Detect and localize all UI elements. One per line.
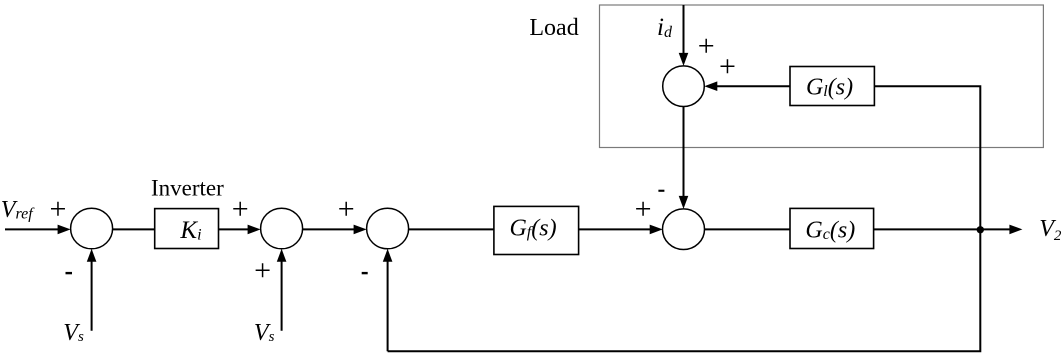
svg-text:+: + [232,193,249,226]
summing junction S1 [71,208,113,249]
wire S5 output down to S4 [679,107,689,209]
summing junction S3 [367,208,409,249]
minus sign at S3 bottom input [362,272,368,274]
Load box (system boundary) [600,5,1044,148]
summing junction S4 [663,209,705,250]
wire/arrow Ki output into S2 [219,225,261,235]
wire feedback from node V2 up into Gl(s) [874,86,980,229]
wire/arrow Gl(s) output into S5 [704,81,790,91]
svg-text:Gl(s): Gl(s) [806,75,853,101]
block Gc(s) [790,208,874,248]
wire/arrow Vs into S2 [277,249,287,331]
block Gf(s) [494,206,579,254]
summing junction S5 (load) [663,66,705,107]
svg-text:Inverter: Inverter [151,175,224,200]
wire feedback from node V2 down to bottom feedback path [388,229,981,351]
wire S3 to Gf [409,228,494,230]
wire/arrow Gf output into S4 [579,225,663,235]
svg-text:Gc(s): Gc(s) [805,218,855,244]
wire/arrow S2 output into S3 [303,225,367,235]
svg-text:+: + [635,193,652,226]
summing junction S2 [261,208,303,249]
wire id input into load summing junction S5 [679,5,689,66]
svg-text:+: + [719,50,736,83]
wire/arrow feedback into S3 from below [383,249,393,351]
wire/arrow Vref into S1 [5,225,71,235]
svg-text:+: + [50,193,67,226]
wire Gc output to node and output arrow [874,225,1023,235]
wire S4 to Gc [704,228,790,230]
minus sign at S4 top input [658,190,664,192]
svg-text:+: + [338,193,355,226]
block Ki [155,209,219,249]
svg-text:+: + [698,30,715,63]
block Gl(s) [790,67,874,106]
svg-text:Load: Load [529,15,578,41]
wire S1 to Ki [113,228,155,230]
node V2 (junction dot) [977,226,984,233]
svg-text:+: + [254,254,271,287]
wire/arrow Vs into S1 [87,249,97,331]
minus sign at S1 bottom input [66,272,73,274]
svg-text:Gf(s): Gf(s) [509,215,556,241]
